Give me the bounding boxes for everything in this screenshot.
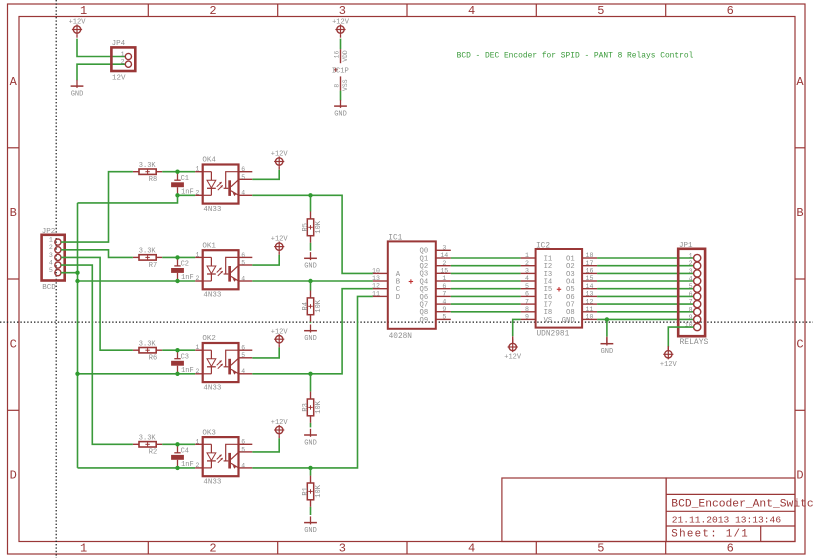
svg-text:11: 11	[586, 306, 594, 313]
svg-text:4: 4	[241, 368, 245, 375]
svg-text:4: 4	[49, 260, 53, 267]
svg-text:7: 7	[689, 299, 693, 306]
svg-text:GND: GND	[601, 348, 614, 356]
svg-text:IC1P: IC1P	[332, 68, 349, 76]
svg-text:RELAYS: RELAYS	[680, 338, 709, 347]
svg-text:2: 2	[195, 275, 199, 282]
svg-text:6: 6	[241, 345, 245, 352]
svg-text:12: 12	[372, 283, 380, 290]
svg-text:GND: GND	[334, 110, 347, 118]
svg-text:5: 5	[597, 542, 604, 556]
svg-text:18: 18	[586, 252, 594, 259]
svg-text:8: 8	[525, 306, 529, 313]
svg-text:5: 5	[525, 283, 529, 290]
svg-text:BCD: BCD	[42, 284, 56, 292]
svg-text:6: 6	[689, 291, 693, 298]
svg-text:BCD - DEC Encoder for SPID - P: BCD - DEC Encoder for SPID - PANT 8 Rela…	[457, 52, 694, 61]
svg-text:BCD_Encoder_Ant_Switch: BCD_Encoder_Ant_Switch	[671, 499, 813, 511]
svg-text:D: D	[10, 469, 17, 483]
svg-text:GND: GND	[304, 527, 317, 535]
svg-text:2: 2	[442, 260, 446, 267]
svg-text:GND: GND	[71, 90, 84, 98]
svg-text:Sheet: 1/1: Sheet: 1/1	[671, 529, 749, 541]
svg-text:7: 7	[525, 298, 529, 305]
svg-text:3: 3	[525, 268, 529, 275]
svg-text:1: 1	[195, 438, 199, 445]
svg-text:2: 2	[209, 542, 216, 556]
svg-text:2: 2	[195, 189, 199, 196]
svg-text:5: 5	[689, 283, 693, 290]
svg-text:1: 1	[195, 166, 199, 173]
svg-text:2: 2	[195, 368, 199, 375]
svg-text:6: 6	[241, 166, 245, 173]
svg-text:14: 14	[586, 283, 594, 290]
svg-text:15: 15	[586, 275, 594, 282]
svg-text:6: 6	[727, 542, 734, 556]
svg-text:12: 12	[586, 298, 594, 305]
svg-text:B: B	[10, 206, 17, 220]
svg-text:10K: 10K	[315, 484, 323, 497]
svg-text:4: 4	[442, 298, 446, 305]
svg-text:+12V: +12V	[271, 151, 289, 159]
svg-text:3.3K: 3.3K	[139, 340, 157, 348]
svg-text:3: 3	[339, 4, 346, 18]
svg-text:5: 5	[241, 259, 245, 266]
svg-text:1: 1	[80, 542, 87, 556]
svg-text:7: 7	[442, 291, 446, 298]
svg-text:5: 5	[49, 267, 53, 274]
svg-text:13: 13	[586, 291, 594, 298]
svg-text:R2: R2	[149, 449, 157, 457]
svg-text:10K: 10K	[315, 400, 323, 413]
svg-text:A: A	[10, 75, 18, 89]
svg-text:1: 1	[525, 252, 529, 259]
svg-text:9: 9	[525, 314, 529, 321]
svg-text:R6: R6	[149, 355, 157, 363]
svg-text:C3: C3	[181, 353, 189, 361]
svg-text:4N33: 4N33	[203, 206, 222, 214]
svg-text:+12V: +12V	[660, 361, 678, 369]
svg-text:+12V: +12V	[504, 354, 522, 362]
svg-text:R1: R1	[302, 487, 310, 495]
svg-text:15: 15	[440, 268, 448, 275]
svg-text:12V: 12V	[112, 74, 126, 82]
svg-text:4N33: 4N33	[203, 385, 222, 393]
svg-text:10K: 10K	[315, 299, 323, 312]
svg-text:10: 10	[372, 267, 380, 274]
svg-text:+12V: +12V	[69, 19, 87, 27]
svg-text:10K: 10K	[315, 220, 323, 233]
svg-text:8: 8	[689, 306, 693, 313]
svg-text:21.11.2013 13:13:46: 21.11.2013 13:13:46	[672, 515, 782, 526]
svg-text:3.3K: 3.3K	[139, 434, 157, 442]
svg-text:C4: C4	[181, 447, 189, 455]
svg-text:4: 4	[468, 542, 475, 556]
svg-text:OK4: OK4	[202, 157, 216, 165]
svg-text:3: 3	[689, 268, 693, 275]
svg-text:4: 4	[241, 275, 245, 282]
svg-text:R8: R8	[149, 176, 157, 184]
svg-text:6: 6	[241, 252, 245, 259]
svg-text:VSS: VSS	[342, 79, 349, 91]
svg-text:4: 4	[525, 275, 529, 282]
svg-text:2: 2	[49, 244, 53, 251]
svg-text:C: C	[10, 337, 17, 351]
svg-text:GND: GND	[562, 317, 575, 325]
svg-text:1: 1	[49, 237, 53, 244]
svg-text:VS: VS	[544, 317, 553, 325]
svg-text:D: D	[796, 469, 803, 483]
svg-text:GND: GND	[304, 263, 317, 271]
svg-text:6: 6	[442, 283, 446, 290]
svg-text:5: 5	[597, 4, 604, 18]
svg-text:6: 6	[241, 439, 245, 446]
svg-text:5: 5	[241, 446, 245, 453]
svg-text:4N33: 4N33	[203, 479, 222, 487]
svg-text:B: B	[796, 206, 803, 220]
svg-text:4: 4	[241, 462, 245, 469]
svg-text:8: 8	[334, 84, 341, 88]
svg-text:C: C	[796, 337, 803, 351]
svg-text:OK2: OK2	[202, 335, 216, 343]
svg-text:9: 9	[689, 314, 693, 321]
svg-text:4N33: 4N33	[203, 292, 222, 300]
svg-text:4: 4	[241, 190, 245, 197]
svg-text:5: 5	[241, 174, 245, 181]
svg-text:2: 2	[209, 4, 216, 18]
svg-text:1: 1	[195, 344, 199, 351]
svg-text:R4: R4	[302, 302, 310, 310]
svg-text:4028N: 4028N	[389, 333, 413, 341]
svg-text:4: 4	[689, 276, 693, 283]
svg-text:2: 2	[689, 260, 693, 267]
svg-text:3: 3	[49, 252, 53, 259]
svg-text:JP2: JP2	[42, 228, 56, 236]
svg-text:+12V: +12V	[271, 419, 289, 427]
svg-text:A: A	[796, 75, 804, 89]
svg-text:5: 5	[241, 352, 245, 359]
svg-text:14: 14	[440, 252, 448, 259]
svg-text:10: 10	[586, 314, 594, 321]
svg-text:+12V: +12V	[332, 19, 350, 27]
svg-text:17: 17	[586, 260, 594, 267]
svg-text:2: 2	[121, 59, 125, 66]
svg-text:11: 11	[372, 290, 380, 297]
svg-text:OK1: OK1	[202, 242, 216, 250]
svg-text:1: 1	[80, 4, 87, 18]
svg-text:+12V: +12V	[271, 328, 289, 336]
svg-text:16: 16	[334, 51, 341, 59]
svg-text:GND: GND	[304, 439, 317, 447]
svg-text:1: 1	[442, 275, 446, 282]
svg-text:C1: C1	[181, 175, 189, 183]
svg-text:13: 13	[372, 275, 380, 282]
svg-text:9: 9	[442, 306, 446, 313]
svg-text:16: 16	[586, 268, 594, 275]
svg-text:JP4: JP4	[112, 40, 126, 48]
svg-text:+12V: +12V	[271, 236, 289, 244]
svg-text:1: 1	[689, 253, 693, 260]
svg-text:R3: R3	[302, 403, 310, 411]
svg-text:IC2: IC2	[536, 242, 550, 250]
svg-text:6: 6	[727, 4, 734, 18]
svg-text:1: 1	[121, 51, 125, 58]
svg-text:JP1: JP1	[679, 242, 693, 250]
svg-text:2: 2	[195, 462, 199, 469]
svg-text:C2: C2	[181, 261, 189, 269]
svg-text:OK3: OK3	[202, 429, 216, 437]
svg-text:UDN2981: UDN2981	[537, 330, 570, 338]
svg-text:VDD: VDD	[342, 50, 349, 62]
svg-text:6: 6	[525, 291, 529, 298]
svg-text:R7: R7	[149, 262, 157, 270]
svg-text:2: 2	[525, 260, 529, 267]
svg-text:Q9: Q9	[420, 317, 429, 325]
svg-text:3: 3	[442, 245, 446, 252]
svg-text:4: 4	[468, 4, 475, 18]
svg-text:3.3K: 3.3K	[139, 162, 157, 170]
svg-text:GND: GND	[304, 335, 317, 343]
svg-text:3: 3	[339, 542, 346, 556]
svg-text:R5: R5	[302, 223, 310, 231]
svg-text:IC1: IC1	[388, 235, 402, 243]
svg-text:D: D	[396, 294, 400, 302]
svg-text:3.3K: 3.3K	[139, 248, 157, 256]
svg-text:1: 1	[195, 251, 199, 258]
svg-text:5: 5	[442, 314, 446, 321]
